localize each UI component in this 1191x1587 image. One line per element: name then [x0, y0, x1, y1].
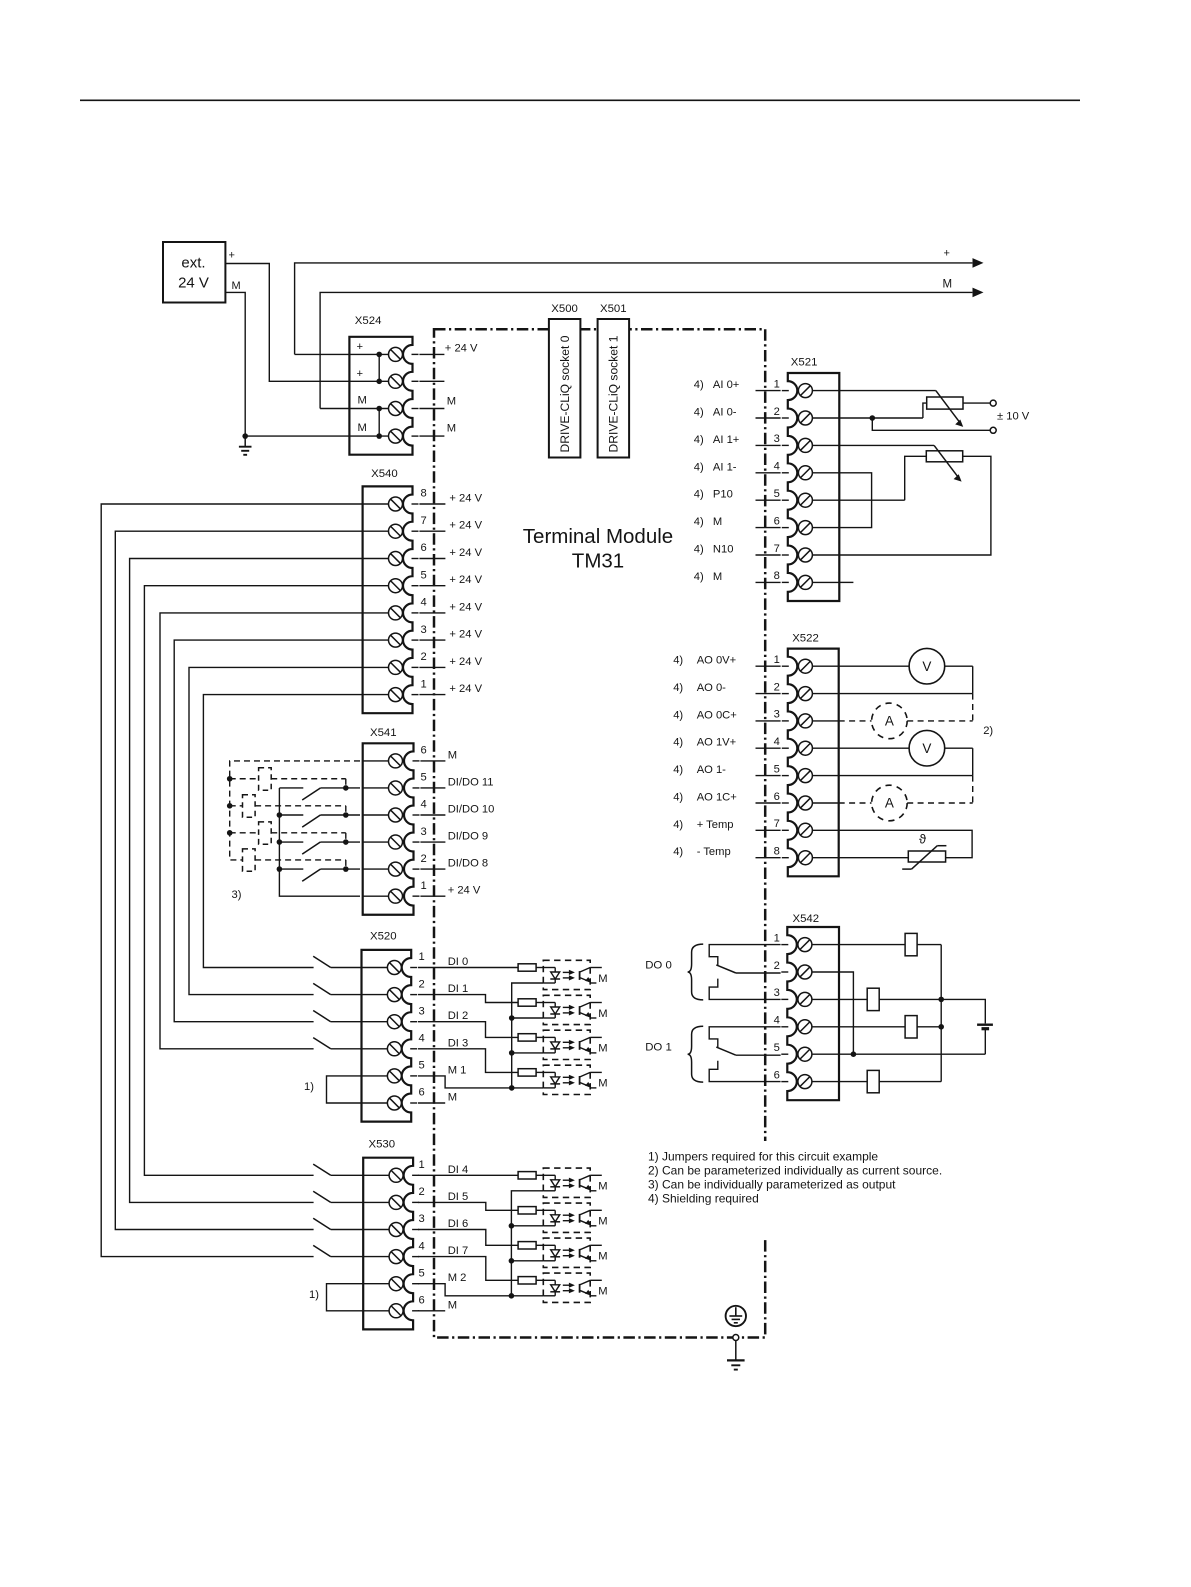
svg-text:+ 24 V: + 24 V [448, 885, 481, 897]
svg-text:M: M [448, 749, 457, 761]
node shield bonding point on boundary [733, 1335, 739, 1341]
connector X500 DRIVE-CLiQ socket 0 [549, 319, 581, 458]
labels at X522 pins (with 4) shield notes) [673, 655, 737, 859]
svg-text:5: 5 [774, 763, 780, 775]
test jack upper (±10V) [990, 400, 996, 406]
brace DO 0 [688, 944, 704, 1000]
svg-text:3: 3 [421, 826, 427, 838]
svg-text:M: M [598, 1008, 607, 1020]
svg-text:5: 5 [421, 569, 427, 581]
voltmeter V (AO 0) [839, 648, 973, 693]
terminal block X524 [349, 337, 418, 455]
svg-text:M 1: M 1 [448, 1064, 467, 1076]
svg-text:4): 4) [673, 819, 683, 831]
X524 terminal stubs [419, 354, 444, 436]
svg-text:DI 5: DI 5 [448, 1191, 469, 1203]
wire P10 [839, 499, 904, 501]
X542 pin numbers 1..6 [774, 932, 780, 1081]
svg-text:X520: X520 [370, 931, 397, 943]
X541 pin numbers 6..1 [421, 745, 427, 892]
label X541 [370, 727, 397, 739]
label M at source output [232, 280, 241, 292]
svg-text:M: M [598, 1251, 607, 1263]
resistor + optocoupler DI 3 [418, 1049, 608, 1095]
terminal block X541 [363, 743, 420, 914]
svg-text:4): 4) [694, 571, 704, 583]
svg-text:M: M [598, 1216, 607, 1228]
svg-text:4): 4) [694, 489, 704, 501]
svg-text:2) Can be parameterized indivi: 2) Can be parameterized individually as … [648, 1163, 942, 1177]
ground symbol at ext24V M [239, 436, 252, 455]
svg-text:+ Temp: + Temp [697, 819, 734, 831]
X530 pin numbers 1..6 [419, 1159, 425, 1307]
switch contact DI 6 [313, 1218, 363, 1229]
X521 pin numbers 1..8 [774, 378, 780, 582]
svg-text:X500: X500 [551, 303, 578, 315]
label DO 1 [645, 1042, 672, 1054]
svg-text:+ 24 V: + 24 V [445, 342, 478, 354]
svg-text:ϑ: ϑ [919, 832, 927, 847]
svg-text:AO 0-: AO 0- [697, 682, 726, 694]
wire X540-2 to DI 1 switch [189, 667, 363, 994]
wire X542-4 to load R [839, 1026, 905, 1028]
X524 pin labels + + M M [357, 341, 367, 434]
label X540 [371, 468, 398, 480]
wire X540-7 to DI 6 switch [115, 531, 362, 1229]
svg-text:5: 5 [774, 1042, 780, 1054]
wire AI 0- [839, 415, 923, 421]
svg-text:± 10 V: ± 10 V [997, 411, 1030, 423]
resistor + optocoupler DI 0 [418, 960, 608, 989]
svg-text:4) Shielding required: 4) Shielding required [648, 1191, 759, 1205]
load resistor at DO 1 NC [867, 1070, 879, 1092]
terminal block X542 [781, 927, 839, 1100]
svg-text:DI/DO 9: DI/DO 9 [448, 831, 488, 843]
wire X540-1 to DI 0 switch [203, 695, 362, 968]
wire load to rail [917, 1026, 941, 1028]
svg-text:M: M [358, 422, 367, 434]
svg-text:Terminal Module: Terminal Module [523, 525, 673, 548]
brace DO 1 [688, 1026, 704, 1082]
switch contact DI 4 [313, 1164, 363, 1175]
label theta [919, 832, 927, 847]
resistor + optocoupler DI 1 [418, 995, 608, 1025]
label X501 [600, 303, 627, 315]
svg-text:M: M [447, 423, 456, 435]
wire dashed coil row 2 [230, 806, 346, 815]
svg-text:DI 2: DI 2 [448, 1010, 469, 1022]
svg-text:+ 24 V: + 24 V [449, 493, 482, 505]
test jack lower (±10V) [990, 427, 996, 433]
label X522 [792, 632, 819, 644]
svg-text:8: 8 [774, 846, 780, 858]
resistor + optocoupler DI 5 [418, 1202, 608, 1232]
battery [977, 1025, 993, 1055]
load coil K4 (dashed, DI/DO 8 used as output) [243, 849, 256, 871]
labels + 24 V at X540 pins [449, 493, 482, 696]
X540 pin numbers 8..1 [421, 488, 427, 691]
node M rail tap 3 [227, 830, 233, 836]
svg-text:2: 2 [774, 406, 780, 418]
wire LED cathode DI 6 to M rail [509, 1258, 544, 1296]
power source ext. 24 V [163, 242, 225, 303]
footnotes 1)-4) [640, 1141, 950, 1237]
svg-text:6: 6 [774, 1069, 780, 1081]
svg-text:AO 0V+: AO 0V+ [697, 655, 737, 667]
switch contact DI 1 [313, 983, 361, 994]
svg-text:DI 3: DI 3 [448, 1037, 469, 1049]
svg-text:AO 1C+: AO 1C+ [697, 792, 737, 804]
label X524 [355, 315, 382, 327]
supply rail (right) [938, 945, 944, 1082]
svg-text:1: 1 [774, 654, 780, 666]
svg-text:3): 3) [232, 889, 242, 901]
node +24V rail tap [277, 839, 283, 845]
terminal block X530 [363, 1158, 419, 1330]
svg-text:DO 0: DO 0 [645, 959, 672, 971]
terminal block X522 [782, 649, 839, 877]
svg-text:A: A [885, 796, 894, 811]
wire R1 left terminal to AI 0- [923, 403, 927, 418]
svg-text:M: M [713, 571, 722, 583]
node M rail tap 2 [227, 803, 233, 809]
svg-text:M: M [943, 279, 953, 291]
svg-text:4: 4 [774, 461, 780, 473]
ammeter A (AO 1C, dashed option) [839, 776, 973, 821]
svg-text:2: 2 [419, 978, 425, 990]
svg-text:3: 3 [419, 1005, 425, 1017]
connector X501 DRIVE-CLiQ socket 1 [598, 319, 630, 458]
terminal block X520 [362, 950, 418, 1122]
ground symbol below shield point [727, 1341, 745, 1370]
svg-text:M: M [598, 1078, 607, 1090]
note marker 1) at X530 [309, 1289, 319, 1301]
svg-text:X524: X524 [355, 315, 382, 327]
resistor + optocoupler DI 7 [418, 1257, 608, 1303]
svg-text:DI 6: DI 6 [448, 1218, 469, 1230]
svg-text:X501: X501 [600, 303, 627, 315]
svg-text:6: 6 [774, 515, 780, 527]
wire - Temp to sensor [839, 857, 909, 859]
note marker 1) at X520 [304, 1081, 314, 1093]
relay contact DO 1 (changeover) [709, 1027, 780, 1082]
svg-text:6: 6 [774, 791, 780, 803]
svg-text:2: 2 [421, 853, 427, 865]
label M at X524-3 [447, 396, 456, 408]
switch contact to DI/DO 10 [279, 815, 360, 827]
svg-text:+ 24 V: + 24 V [449, 683, 482, 695]
wire ext24V M to X524 terminal 4 [225, 292, 350, 436]
wire AI 1+ to potentiometer R2 wiper [839, 444, 934, 446]
svg-text:4): 4) [673, 792, 683, 804]
ammeter A (AO 0C, dashed option) [839, 694, 973, 739]
labels at X530 pins [448, 1164, 469, 1312]
wire dashed coil row 3 [230, 833, 346, 842]
svg-text:AI 0-: AI 0- [713, 407, 737, 419]
svg-text:AI 1-: AI 1- [713, 461, 737, 473]
svg-text:4: 4 [774, 736, 780, 748]
svg-text:N10: N10 [713, 544, 734, 556]
protective earth symbol (PE) [726, 1306, 746, 1326]
load coil K1 (dashed, DI/DO 11 used as output) [259, 768, 272, 790]
svg-text:+ 24 V: + 24 V [449, 601, 482, 613]
svg-text:3: 3 [774, 709, 780, 721]
wire jumper AI 1- to M [839, 473, 871, 528]
wire +24V rail (X541-1) [279, 788, 360, 896]
svg-text:4): 4) [673, 655, 683, 667]
svg-text:+: + [229, 250, 235, 262]
wire battery minus to commons (X542-5 row) [839, 1053, 985, 1055]
svg-text:1: 1 [419, 1159, 425, 1171]
svg-text:X522: X522 [792, 632, 819, 644]
relay contact DO 0 (changeover) [709, 945, 780, 1000]
svg-text:3: 3 [419, 1213, 425, 1225]
wire LED cathode DI 2 to M rail [509, 1050, 543, 1088]
svg-text:1): 1) [304, 1081, 314, 1093]
svg-text:8: 8 [774, 570, 780, 582]
wire M 1 return (X520-5) [418, 1076, 543, 1091]
X521 terminal stubs [756, 391, 781, 583]
wire X540-6 to DI 5 switch [130, 559, 363, 1203]
svg-text:4: 4 [419, 1240, 425, 1252]
wire X542-1 to load R [839, 944, 905, 946]
svg-text:+: + [357, 341, 364, 353]
svg-text:AO 0C+: AO 0C+ [697, 709, 737, 721]
top rule [80, 99, 1080, 101]
svg-text:1: 1 [419, 951, 425, 963]
wire R1 right terminal to upper test jack [963, 402, 990, 404]
svg-text:DO 1: DO 1 [645, 1042, 672, 1054]
label + at top-right arrow [944, 248, 950, 260]
svg-text:V: V [922, 741, 931, 756]
node coil 1 output junction [343, 785, 349, 791]
node coil 4 output junction [343, 866, 349, 872]
svg-text:1: 1 [421, 880, 427, 892]
wire M stub X530-6 [418, 1310, 445, 1312]
switch contact DI 7 [313, 1245, 363, 1256]
label + at source output [229, 250, 235, 262]
X522 terminal stubs [756, 666, 781, 858]
node +24V rail tap [277, 812, 283, 818]
svg-text:P10: P10 [713, 489, 733, 501]
wire X540-8 to DI 7 switch [101, 504, 362, 1257]
svg-text:- Temp: - Temp [697, 846, 731, 858]
svg-text:X541: X541 [370, 727, 397, 739]
switch contact to DI/DO 11 [279, 788, 360, 800]
terminal block X521 [782, 373, 840, 601]
wire M 2 return (X530-5) [418, 1284, 543, 1299]
svg-text:M: M [448, 1299, 457, 1311]
switch contact DI 3 [313, 1038, 361, 1049]
wire X542-3 to load R [839, 998, 867, 1000]
svg-text:DRIVE-CLiQ socket 0: DRIVE-CLiQ socket 0 [558, 335, 572, 452]
svg-text:5: 5 [774, 488, 780, 500]
svg-text:M 2: M 2 [448, 1272, 467, 1284]
svg-text:+ 24 V: + 24 V [449, 547, 482, 559]
svg-text:DI 1: DI 1 [448, 983, 469, 995]
wire M stub X521-8 [839, 581, 853, 583]
svg-text:AI 0+: AI 0+ [713, 379, 739, 391]
load resistor at DO 0 NO [905, 933, 917, 955]
svg-text:4: 4 [421, 597, 427, 609]
wire X542-2 common to battery minus row [839, 972, 856, 1057]
svg-text:AI 1+: AI 1+ [713, 434, 739, 446]
svg-text:1) Jumpers required for this c: 1) Jumpers required for this circuit exa… [648, 1149, 878, 1163]
svg-text:2: 2 [419, 1186, 425, 1198]
labels at X521 pins (with 4) shield notes) [694, 379, 740, 583]
svg-text:+ 24 V: + 24 V [449, 520, 482, 532]
jumper 1) X530 5-6 [327, 1284, 364, 1311]
wire X540-3 to DI 2 switch [174, 640, 362, 1022]
svg-text:M: M [598, 1286, 607, 1298]
label ± 10 V [997, 411, 1030, 423]
svg-text:AO 1V+: AO 1V+ [697, 737, 737, 749]
X520 pin numbers 1..6 [419, 951, 425, 1098]
wire R2 right terminal to N10 [839, 456, 991, 555]
svg-text:4): 4) [673, 737, 683, 749]
svg-text:M: M [448, 1092, 457, 1104]
label X530 [369, 1138, 396, 1150]
svg-text:DI 0: DI 0 [448, 956, 469, 968]
svg-text:+: + [357, 368, 364, 380]
voltmeter V (AO 1) [839, 730, 973, 775]
svg-text:DI 7: DI 7 [448, 1245, 469, 1257]
svg-text:+: + [944, 248, 950, 260]
svg-text:M: M [598, 1043, 607, 1055]
svg-text:7: 7 [774, 818, 780, 830]
module boundary (dash-dot frame of TM31) [434, 329, 765, 1337]
svg-text:1): 1) [309, 1289, 319, 1301]
note marker 2) [983, 725, 993, 737]
load coil K3 (dashed, DI/DO 9 used as output) [259, 822, 272, 844]
wire LED cathode DI 4 to M rail [511, 1191, 543, 1226]
label M at X524-4 [447, 423, 456, 435]
svg-text:V: V [922, 659, 931, 674]
svg-text:M: M [447, 396, 456, 408]
svg-text:A: A [885, 714, 894, 729]
X524 internal jumper 1-2 [376, 352, 382, 385]
svg-text:M: M [598, 973, 607, 985]
svg-text:7: 7 [774, 543, 780, 555]
svg-text:2: 2 [421, 651, 427, 663]
load coil K2 (dashed, DI/DO 10 used as output) [243, 795, 256, 817]
svg-text:4): 4) [694, 379, 704, 391]
svg-text:5: 5 [419, 1267, 425, 1279]
X540 terminal stubs [419, 504, 445, 695]
svg-text:DRIVE-CLiQ socket 1: DRIVE-CLiQ socket 1 [607, 335, 621, 452]
terminal block X540 [363, 486, 419, 713]
svg-text:2: 2 [774, 681, 780, 693]
wire M stub X520-6 [418, 1102, 445, 1104]
wire LED cathode DI 5 to M rail [509, 1223, 544, 1261]
svg-text:X521: X521 [791, 357, 818, 369]
svg-text:4): 4) [673, 846, 683, 858]
node +24V rail tap [277, 866, 283, 872]
svg-text:4): 4) [694, 544, 704, 556]
wire X540-4 to DI 3 switch [160, 613, 363, 1049]
svg-text:+ 24 V: + 24 V [449, 629, 482, 641]
wire load to supply rail [917, 944, 941, 946]
svg-text:4): 4) [694, 461, 704, 473]
svg-text:ext.: ext. [181, 255, 205, 272]
svg-text:2): 2) [983, 725, 993, 737]
wire dashed M rail (X541 outputs) [230, 761, 360, 860]
wire load to rail + battery branch [879, 999, 985, 1023]
label X521 [791, 357, 818, 369]
svg-text:DI/DO 11: DI/DO 11 [448, 776, 494, 788]
X524 internal jumper 3-4 [376, 406, 382, 439]
node coil 3 output junction [343, 839, 349, 845]
svg-text:7: 7 [421, 515, 427, 527]
svg-text:X540: X540 [371, 468, 398, 480]
switch contact to DI/DO 8 [279, 869, 360, 881]
svg-text:M: M [358, 395, 367, 407]
X522 pin numbers 1..8 [774, 654, 780, 858]
node junction at ground tap [242, 433, 248, 439]
svg-text:4: 4 [421, 799, 427, 811]
svg-text:4): 4) [673, 682, 683, 694]
svg-text:+ 24 V: + 24 V [449, 656, 482, 668]
wire +24V bus drop to X524 terminal 1 [295, 353, 350, 355]
wire load to rail bottom [879, 1081, 941, 1083]
labels at X520 pins [448, 956, 469, 1104]
label X520 [370, 931, 397, 943]
svg-text:TM31: TM31 [572, 550, 624, 573]
switch contact DI 5 [313, 1191, 363, 1202]
wire X540-5 to DI 4 switch [144, 586, 362, 1176]
svg-text:X542: X542 [793, 913, 820, 925]
switch contact DI 2 [313, 1011, 361, 1022]
wire dashed coil row 1 [230, 779, 346, 788]
wire + Temp loop [839, 830, 972, 857]
resistor + optocoupler DI 4 [418, 1168, 608, 1197]
wire M bus drop to X524 terminal 3 [320, 408, 350, 410]
svg-text:DI/DO 8: DI/DO 8 [448, 858, 488, 870]
resistor + optocoupler DI 6 [418, 1230, 608, 1268]
label M at top-right arrow [943, 279, 953, 291]
svg-text:1: 1 [774, 932, 780, 944]
svg-text:4): 4) [673, 764, 683, 776]
svg-text:6: 6 [421, 745, 427, 757]
svg-text:M: M [232, 280, 241, 292]
svg-text:1: 1 [421, 678, 427, 690]
svg-text:AO 1-: AO 1- [697, 764, 726, 776]
label DO 0 [645, 959, 672, 971]
svg-text:24 V: 24 V [178, 275, 209, 292]
potentiometer R1 [927, 391, 964, 427]
potentiometer R2 [926, 445, 962, 481]
wire LED cathode DI 1 to M rail [509, 1015, 543, 1053]
svg-text:6: 6 [421, 542, 427, 554]
temperature sensor KTY (thermistor) [902, 846, 946, 869]
svg-text:1: 1 [774, 378, 780, 390]
svg-text:4): 4) [673, 709, 683, 721]
svg-text:5: 5 [421, 772, 427, 784]
svg-text:4: 4 [774, 1015, 780, 1027]
wire LED cathode DI 0 to M rail [512, 983, 544, 1018]
wire X542-6 to load R [839, 1081, 867, 1083]
labels at X541 pins [448, 749, 495, 896]
svg-text:M: M [713, 516, 722, 528]
resistor + optocoupler DI 2 [418, 1022, 608, 1060]
svg-text:DI/DO 10: DI/DO 10 [448, 804, 495, 816]
svg-text:4: 4 [419, 1033, 425, 1045]
svg-text:4): 4) [694, 407, 704, 419]
svg-text:6: 6 [419, 1087, 425, 1099]
wire +24V bus to top-right arrow [295, 258, 984, 354]
wire R2 left terminal to P10 [905, 456, 927, 500]
X541 terminal stubs [420, 761, 445, 896]
